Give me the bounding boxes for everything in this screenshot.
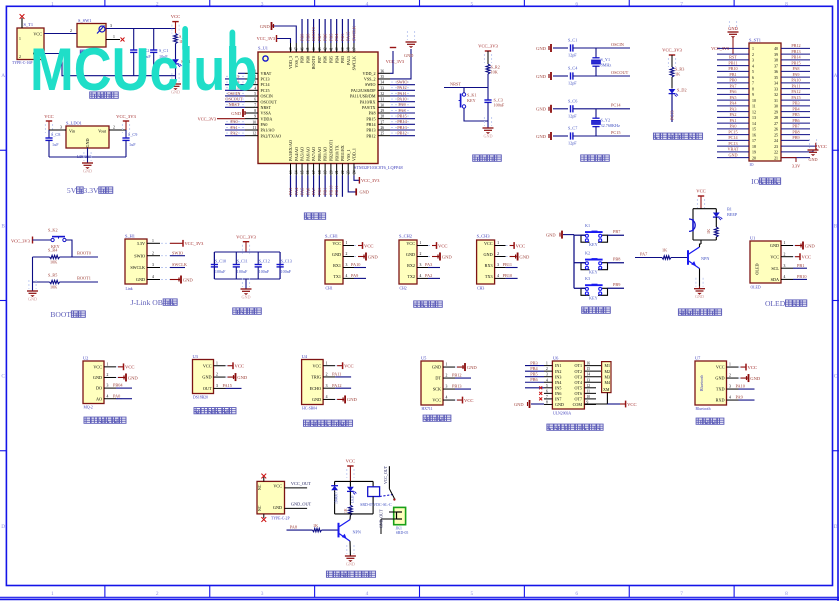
- svg-text:PB8: PB8: [613, 257, 620, 262]
- svg-text:PA4: PA4: [294, 187, 299, 195]
- svg-text:S_T1: S_T1: [24, 22, 34, 27]
- svg-text:21: 21: [774, 156, 778, 160]
- svg-text:PA10: PA10: [397, 96, 406, 101]
- svg-text:GND: GND: [347, 397, 358, 402]
- svg-text:PB10: PB10: [797, 274, 807, 279]
- svg-text:35: 35: [381, 75, 385, 79]
- svg-text:3: 3: [546, 373, 548, 377]
- GND port button circuit: [546, 231, 574, 239]
- svg-text:PA10/RX: PA10/RX: [360, 99, 376, 104]
- svg-text:100nF: 100nF: [281, 269, 292, 274]
- svg-text:10: 10: [752, 99, 756, 103]
- svg-text:S_C1: S_C1: [568, 38, 577, 43]
- svg-text:A: A: [1, 73, 5, 79]
- svg-text:29: 29: [774, 110, 778, 114]
- svg-text:4: 4: [752, 64, 754, 68]
- svg-text:PA2: PA2: [729, 112, 736, 117]
- svg-text:VCC_3V3: VCC_3V3: [386, 59, 404, 64]
- svg-text:34: 34: [381, 81, 385, 85]
- svg-text:IN4: IN4: [555, 380, 561, 385]
- net label PB10 OLED SDA: [793, 274, 807, 279]
- svg-text:PB14: PB14: [791, 55, 801, 60]
- GND port S_CH2: [432, 253, 452, 261]
- power port VCC alarm: [696, 189, 705, 209]
- svg-text:6: 6: [546, 389, 548, 393]
- alarm bottom rail to collector: [693, 240, 716, 244]
- svg-text:PB4: PB4: [334, 33, 339, 41]
- MCU right pin stubs and numbers: [378, 69, 390, 135]
- svg-text:KEY: KEY: [467, 98, 476, 103]
- GND port S_C1: [536, 44, 551, 52]
- MCU left pin stubs and numbers: [245, 69, 258, 135]
- svg-text:100nF: 100nF: [494, 103, 505, 108]
- MCU right net wires and labels: [390, 79, 415, 135]
- svg-text:GND: GND: [536, 107, 547, 112]
- svg-text:8MHz: 8MHz: [601, 63, 612, 68]
- svg-text:32: 32: [774, 93, 778, 97]
- svg-text:28: 28: [774, 116, 778, 120]
- bottom rail of power circuit: [44, 54, 176, 76]
- block title 称重模块: [423, 415, 430, 421]
- module U4 body: [302, 354, 324, 411]
- svg-text:16: 16: [306, 170, 310, 174]
- module U7 body: [695, 356, 727, 412]
- svg-text:1: 1: [152, 239, 154, 243]
- svg-text:VCC: VCC: [203, 363, 212, 368]
- svg-text:PA7/AO: PA7/AO: [311, 147, 316, 161]
- svg-text:GND: GND: [728, 26, 738, 31]
- svg-text:12pF: 12pF: [568, 53, 577, 58]
- svg-text:PB0: PB0: [729, 78, 736, 83]
- svg-text:VCC: VCC: [464, 398, 473, 403]
- svg-text:PB3: PB3: [340, 56, 345, 63]
- svg-text:CH2: CH2: [400, 287, 407, 291]
- capacitor S_C3 100nF reset: [484, 88, 504, 122]
- svg-text:VCC: VCC: [171, 14, 180, 19]
- svg-text:VCC: VCC: [818, 144, 827, 149]
- svg-text:S_C11: S_C11: [237, 259, 248, 264]
- svg-text:VCC_3V3: VCC_3V3: [185, 241, 205, 246]
- svg-text:SWCLK: SWCLK: [172, 262, 188, 267]
- svg-text:GND: GND: [442, 254, 453, 259]
- svg-text:SRD-05VDC-SL-C: SRD-05VDC-SL-C: [360, 502, 392, 507]
- filter ground: [241, 278, 252, 300]
- svg-text:CH1: CH1: [326, 287, 333, 291]
- crystal S_Y2 32.768KHz: [592, 109, 620, 136]
- svg-text:1: 1: [107, 362, 109, 366]
- svg-text:GND: GND: [368, 254, 379, 259]
- svg-text:K2: K2: [585, 251, 590, 256]
- svg-text:3: 3: [446, 385, 448, 389]
- svg-text:Bluetooth: Bluetooth: [699, 374, 704, 391]
- svg-text:PA10: PA10: [791, 78, 800, 83]
- no-ERC marks TYPE-C: [261, 474, 266, 522]
- svg-text:VBAT: VBAT: [728, 147, 739, 152]
- svg-text:PB10: PB10: [728, 66, 737, 71]
- svg-text:4: 4: [366, 591, 369, 597]
- svg-text:NPN: NPN: [353, 530, 361, 535]
- svg-text:M3: M3: [604, 374, 610, 379]
- svg-text:S_D2: S_D2: [677, 88, 687, 93]
- U2 pin 1 vcc VCC: [104, 362, 134, 370]
- svg-text:PC15: PC15: [611, 130, 621, 135]
- svg-text:GND: GND: [483, 134, 492, 139]
- svg-text:22: 22: [774, 151, 778, 155]
- svg-text:5V: 5V: [67, 186, 77, 195]
- svg-text:37: 37: [352, 47, 356, 51]
- display module U1 OLED body: [750, 236, 781, 290]
- net label SWCLK wire: [170, 262, 188, 267]
- capacitor S_C7 12pF: [553, 126, 630, 146]
- svg-text:PA9: PA9: [398, 102, 405, 107]
- svg-text:1: 1: [19, 37, 21, 41]
- svg-text:PC13: PC13: [728, 141, 737, 146]
- svg-text:JK1: JK1: [396, 527, 402, 531]
- svg-text:11: 11: [253, 126, 257, 130]
- svg-text:S_U1: S_U1: [258, 46, 268, 51]
- svg-text:VCC: VCC: [125, 365, 134, 370]
- svg-text:18: 18: [318, 170, 322, 174]
- svg-text:VCC: VCC: [273, 483, 282, 488]
- button bus vertical wire: [573, 235, 575, 289]
- base resistor 1K relay: [313, 523, 339, 532]
- U6 input wires PB3-PB6: [525, 360, 544, 387]
- connector JK1 SRD-05: [380, 507, 409, 535]
- net label PB1 OLED SCL: [793, 263, 807, 268]
- svg-text:KEY: KEY: [589, 242, 598, 247]
- relay resistor 1K: [344, 491, 352, 515]
- svg-text:3: 3: [261, 1, 264, 7]
- svg-text:3: 3: [326, 384, 328, 388]
- svg-text:PB12: PB12: [366, 133, 375, 138]
- svg-text:SCK: SCK: [433, 387, 441, 392]
- S_CH2 pin wires: [417, 241, 434, 278]
- svg-text:PB5: PB5: [328, 34, 333, 41]
- base resistor 1K alarm: [635, 248, 688, 260]
- svg-text:TX2: TX2: [407, 274, 415, 279]
- svg-text:12: 12: [587, 384, 591, 388]
- capacitor S_C9 1uF: [122, 130, 137, 157]
- svg-text:VCC: VCC: [802, 255, 811, 260]
- svg-text:23: 23: [347, 170, 351, 174]
- svg-text:TRIG: TRIG: [311, 375, 321, 380]
- svg-text:GND: GND: [360, 190, 369, 195]
- svg-text:42: 42: [324, 47, 328, 51]
- svg-text:GND: GND: [183, 277, 194, 282]
- svg-text:PB7: PB7: [792, 124, 799, 129]
- svg-text:PA15: PA15: [223, 383, 232, 388]
- svg-text:2: 2: [546, 367, 548, 371]
- svg-text:PA8: PA8: [290, 524, 297, 529]
- no-ERC on SW1 pin1: [106, 38, 125, 42]
- connector TYPE-C-2P output: [257, 481, 290, 520]
- svg-text:SWCLK: SWCLK: [130, 265, 145, 270]
- svg-text:47: 47: [295, 47, 299, 51]
- svg-text:PA1/AO: PA1/AO: [261, 128, 275, 133]
- net label PA8 wire: [287, 524, 313, 530]
- svg-text:4: 4: [497, 274, 499, 278]
- relay network top rail: [335, 480, 374, 482]
- svg-text:GND: GND: [332, 252, 341, 257]
- svg-text:SWIO: SWIO: [134, 253, 145, 258]
- svg-text:45: 45: [306, 47, 310, 51]
- svg-text:HX711: HX711: [422, 407, 433, 411]
- svg-text:PA12: PA12: [332, 383, 341, 388]
- svg-text:VCC: VCC: [696, 189, 705, 194]
- svg-text:PA1: PA1: [729, 118, 736, 123]
- MCU left net wires and labels: [225, 73, 245, 135]
- U5 pin 2 net PB12: [443, 373, 471, 378]
- MCU bottom pin names: [288, 140, 356, 161]
- svg-text:VCC: VCC: [332, 241, 341, 246]
- svg-text:PA3: PA3: [729, 106, 736, 111]
- svg-text:PA12/USB/DP: PA12/USB/DP: [351, 88, 376, 93]
- svg-text:LED: LED: [351, 495, 355, 503]
- svg-text:1: 1: [51, 591, 54, 597]
- svg-text:PA2: PA2: [425, 273, 432, 278]
- svg-text:PB13: PB13: [452, 384, 462, 389]
- svg-text:28: 28: [381, 115, 385, 119]
- svg-text:48: 48: [289, 47, 293, 51]
- svg-text:PA15: PA15: [791, 95, 800, 100]
- U7 pin 3 net PA10: [727, 384, 755, 389]
- push button S_K2 boot: [48, 228, 72, 258]
- svg-text:24: 24: [352, 170, 356, 174]
- svg-text:1: 1: [346, 241, 348, 245]
- svg-text:OLED: OLED: [755, 263, 760, 274]
- push button S_K1 reset: [459, 88, 488, 122]
- push button K3: [574, 276, 624, 300]
- svg-text:PB11: PB11: [503, 262, 512, 267]
- svg-text:1K: 1K: [313, 523, 318, 528]
- svg-text:VCC: VCC: [627, 402, 636, 407]
- svg-text:GND: GND: [85, 138, 90, 147]
- svg-text:10K: 10K: [50, 285, 57, 290]
- svg-text:RX3: RX3: [485, 263, 493, 268]
- svg-text:VCC_3V3: VCC_3V3: [236, 235, 256, 240]
- svg-text:PA10: PA10: [351, 262, 360, 267]
- svg-text:PB3: PB3: [340, 34, 345, 41]
- svg-text:PB6: PB6: [792, 118, 799, 123]
- svg-text:OT3: OT3: [574, 374, 582, 379]
- svg-text:VCC: VCC: [716, 365, 725, 370]
- svg-text:SWCLK: SWCLK: [351, 25, 356, 41]
- svg-text:PB15: PB15: [791, 60, 800, 65]
- svg-text:GND_OUT: GND_OUT: [380, 509, 384, 528]
- GND port at MCU VSSA: [231, 109, 245, 117]
- svg-text:S_CH2: S_CH2: [399, 234, 412, 239]
- U5 pin 4 vcc VCC: [443, 396, 473, 404]
- svg-text:S_CH3: S_CH3: [477, 234, 491, 239]
- svg-text:SRD-05: SRD-05: [396, 531, 409, 535]
- svg-text:VCC: VCC: [346, 459, 355, 464]
- svg-text:GND: GND: [805, 243, 816, 248]
- svg-text:GND: GND: [346, 562, 355, 567]
- net label PA2: [425, 273, 440, 278]
- svg-text:41: 41: [329, 47, 333, 51]
- svg-text:10: 10: [252, 120, 256, 124]
- MCU top pin names: [288, 56, 356, 70]
- svg-text:MCUclub: MCUclub: [30, 36, 257, 103]
- svg-text:13: 13: [289, 170, 293, 174]
- svg-text:2: 2: [156, 591, 159, 597]
- relay contact arm: [380, 465, 396, 500]
- GND port at MCU VSS_3 top: [260, 22, 297, 43]
- svg-text:2: 2: [497, 252, 499, 256]
- svg-text:4: 4: [346, 274, 348, 278]
- module U2 body: [83, 356, 104, 410]
- svg-text:VCC: VCC: [93, 364, 102, 369]
- svg-text:J-Link OB: J-Link OB: [131, 298, 163, 307]
- svg-text:3: 3: [784, 264, 786, 268]
- net label PA9: [351, 273, 366, 278]
- svg-text:MQ-2: MQ-2: [84, 406, 93, 410]
- net label SWIO wire: [170, 250, 185, 255]
- svg-text:PB4: PB4: [530, 366, 538, 371]
- svg-text:GND: GND: [312, 397, 321, 402]
- svg-text:38: 38: [347, 47, 351, 51]
- connector S_CH1 serial: [325, 234, 343, 291]
- svg-text:SWIO: SWIO: [397, 79, 408, 84]
- svg-text:PC14: PC14: [728, 135, 738, 140]
- svg-text:SCL: SCL: [771, 266, 779, 271]
- svg-text:PB1: PB1: [323, 188, 328, 195]
- wire and rotated net label PC13: [670, 94, 675, 122]
- svg-text:31: 31: [774, 99, 778, 103]
- svg-text:PA4: PA4: [729, 101, 737, 106]
- U5 pin 1 gnd GND: [443, 363, 477, 371]
- block title power circuit: [90, 92, 97, 98]
- MCUclub watermark logo: [30, 26, 257, 103]
- svg-text:34: 34: [774, 82, 778, 86]
- VCC_3V3 port at J-Link pin1: [170, 240, 204, 247]
- svg-text:VDD_2: VDD_2: [363, 71, 376, 76]
- module U5 body: [421, 356, 443, 412]
- svg-text:2: 2: [729, 374, 731, 378]
- svg-text:GND: GND: [273, 505, 282, 510]
- svg-text:22: 22: [341, 170, 345, 174]
- svg-text:PA7: PA7: [729, 83, 736, 88]
- block title serial circuit: [414, 301, 421, 307]
- svg-text:S_K1: S_K1: [467, 93, 477, 98]
- svg-text:2: 2: [784, 252, 786, 256]
- svg-text:GND: GND: [202, 375, 211, 380]
- svg-text:8: 8: [785, 1, 788, 7]
- svg-text:14: 14: [752, 122, 756, 126]
- svg-text:GND: GND: [231, 111, 242, 116]
- push button K1: [574, 223, 624, 247]
- svg-text:PB10/TX: PB10/TX: [334, 145, 339, 161]
- svg-text:GND: GND: [536, 134, 547, 139]
- GND port above header: [728, 21, 739, 54]
- capacitor S_C8 1uF: [45, 130, 60, 157]
- svg-text:PA7: PA7: [640, 252, 648, 257]
- svg-text:RXD: RXD: [716, 398, 725, 403]
- svg-text:9: 9: [254, 115, 256, 119]
- svg-text:VCC: VCC: [432, 398, 441, 403]
- svg-text:PB9: PB9: [613, 282, 620, 287]
- net label PB11: [503, 262, 518, 267]
- svg-text:GND: GND: [28, 297, 37, 302]
- svg-text:6: 6: [575, 1, 578, 7]
- svg-text:PB12: PB12: [397, 130, 407, 135]
- svg-text:3.3V: 3.3V: [792, 164, 800, 169]
- block title 烟雾检测模块: [84, 417, 91, 423]
- svg-text:PA9: PA9: [351, 273, 358, 278]
- block title button circuit: [582, 307, 589, 313]
- svg-text:RX1: RX1: [333, 263, 341, 268]
- svg-text:PA11/USB/DM: PA11/USB/DM: [350, 94, 376, 99]
- svg-text:PB13: PB13: [397, 125, 407, 130]
- svg-text:PB5: PB5: [792, 112, 799, 117]
- svg-text:7: 7: [680, 591, 683, 597]
- svg-text:39: 39: [341, 47, 345, 51]
- svg-text:2: 2: [216, 373, 218, 377]
- svg-text:BOOT0: BOOT0: [77, 251, 91, 256]
- svg-text:IN2: IN2: [555, 369, 561, 374]
- svg-text:23: 23: [774, 145, 778, 149]
- resistor S_R1 power LED: [174, 34, 189, 60]
- svg-text:29: 29: [381, 109, 385, 113]
- svg-text:GND: GND: [546, 232, 556, 237]
- svg-text:PA6: PA6: [305, 187, 310, 195]
- svg-text:IN1: IN1: [555, 363, 561, 368]
- svg-text:30: 30: [381, 103, 385, 107]
- svg-text:PB8: PB8: [305, 34, 310, 41]
- ground of relay circuit: [345, 545, 356, 567]
- svg-text:S_K2: S_K2: [48, 228, 58, 233]
- svg-text:37: 37: [774, 64, 778, 68]
- U2 pin 2 gnd GND: [104, 373, 138, 381]
- VCC port S_CH3: [510, 242, 525, 249]
- U6 right pin stubs and numbers: [584, 362, 601, 405]
- svg-text:VCC: VCC: [364, 243, 373, 248]
- svg-text:1: 1: [497, 241, 499, 245]
- LDO ground rail: [49, 148, 126, 163]
- svg-text:U4: U4: [302, 354, 308, 359]
- svg-text:VSS_2: VSS_2: [364, 77, 376, 82]
- svg-text:PA15: PA15: [346, 32, 351, 41]
- svg-text:IN6: IN6: [555, 391, 561, 396]
- svg-text:PC14: PC14: [261, 82, 270, 87]
- block title crystal circuit: [581, 155, 588, 161]
- connector S_CH3 serial: [477, 234, 495, 291]
- svg-text:17: 17: [752, 139, 756, 143]
- svg-text:VCC_3V3: VCC_3V3: [361, 178, 379, 183]
- svg-text:PA8: PA8: [398, 108, 405, 113]
- svg-text:PB5: PB5: [530, 372, 537, 377]
- svg-text:A: A: [834, 73, 838, 79]
- svg-text:CH3: CH3: [477, 287, 484, 291]
- svg-text:2: 2: [752, 53, 754, 57]
- svg-text:VCC: VCC: [235, 364, 244, 369]
- svg-text:PA3: PA3: [288, 188, 293, 195]
- svg-text:27: 27: [774, 122, 778, 126]
- svg-text:OSCOUT: OSCOUT: [611, 70, 629, 75]
- relay coil: [360, 481, 392, 514]
- svg-text:OT7: OT7: [574, 397, 582, 402]
- svg-text:PA12: PA12: [791, 89, 800, 94]
- svg-text:39: 39: [774, 53, 778, 57]
- no-ERC marks on U6 IN5-IN7: [539, 386, 542, 400]
- svg-text:GND: GND: [514, 402, 524, 407]
- svg-text:PB4: PB4: [334, 56, 339, 63]
- svg-text:2: 2: [19, 55, 21, 59]
- svg-text:9: 9: [752, 93, 754, 97]
- svg-text:IN7: IN7: [555, 397, 561, 402]
- GND port S_C6: [536, 105, 551, 113]
- svg-text:PA0: PA0: [113, 393, 120, 398]
